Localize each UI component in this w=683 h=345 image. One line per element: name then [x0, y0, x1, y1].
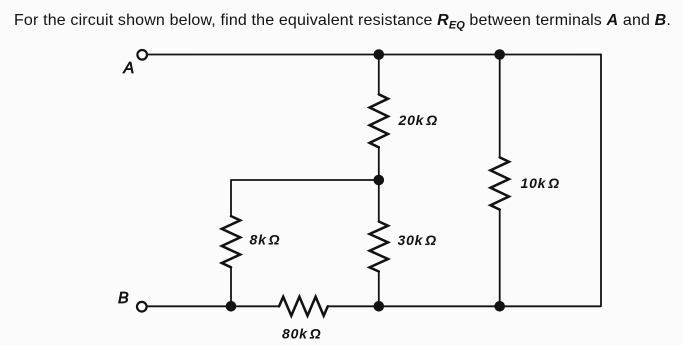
- wire: top rail from terminal A to top-right corner: [148, 54, 601, 56]
- junction dot: bottom rail / 8k: [226, 301, 237, 312]
- wire: 30k branch upper lead: [378, 180, 380, 222]
- resistor 80k ohm (horizontal zigzag): [279, 297, 328, 316]
- wire: 8k branch lower lead: [230, 267, 232, 306]
- problem statement text: [14, 12, 671, 32]
- terminal A open circle: [137, 50, 147, 60]
- junction dot: bottom rail / 30k: [374, 301, 385, 312]
- resistor 20k ohm (vertical zigzag): [370, 94, 388, 147]
- resistor 30k ohm (vertical zigzag): [370, 222, 388, 272]
- junction dot: top rail / 20k: [374, 49, 385, 60]
- svg-text:8k Ω: 8k Ω: [250, 232, 281, 248]
- wire: 30k branch lower lead: [378, 272, 380, 307]
- svg-text:A: A: [123, 60, 135, 77]
- wire: 20k branch lower lead to middle node: [378, 147, 380, 180]
- wire: bottom rail from terminal B to 80k resistor: [147, 305, 279, 307]
- wire: right edge down and along bottom to 10k node: [500, 55, 601, 307]
- wire: 20k branch upper lead: [378, 55, 380, 95]
- terminal B open circle: [137, 302, 147, 312]
- resistor 10k ohm (vertical zigzag): [491, 157, 509, 209]
- wire: bottom rail from 80k resistor to right edge: [328, 305, 500, 307]
- svg-text:20k Ω: 20k Ω: [398, 112, 438, 128]
- wire: 10k branch lower lead: [499, 210, 501, 307]
- svg-text:30k Ω: 30k Ω: [398, 232, 437, 248]
- wire: middle rail from 8k branch corner to 20k/30k node: [231, 180, 379, 216]
- svg-text:80k Ω: 80k Ω: [282, 326, 321, 342]
- wire: 10k branch upper lead: [499, 55, 501, 158]
- svg-text:10k Ω: 10k Ω: [521, 175, 560, 191]
- junction dot: middle rail / 20k-30k: [374, 175, 385, 186]
- svg-text:B: B: [118, 290, 129, 307]
- resistor 8k ohm (vertical zigzag): [222, 216, 240, 267]
- junction dot: top rail / 10k: [494, 49, 505, 60]
- junction dot: bottom rail / 10k: [494, 301, 505, 312]
